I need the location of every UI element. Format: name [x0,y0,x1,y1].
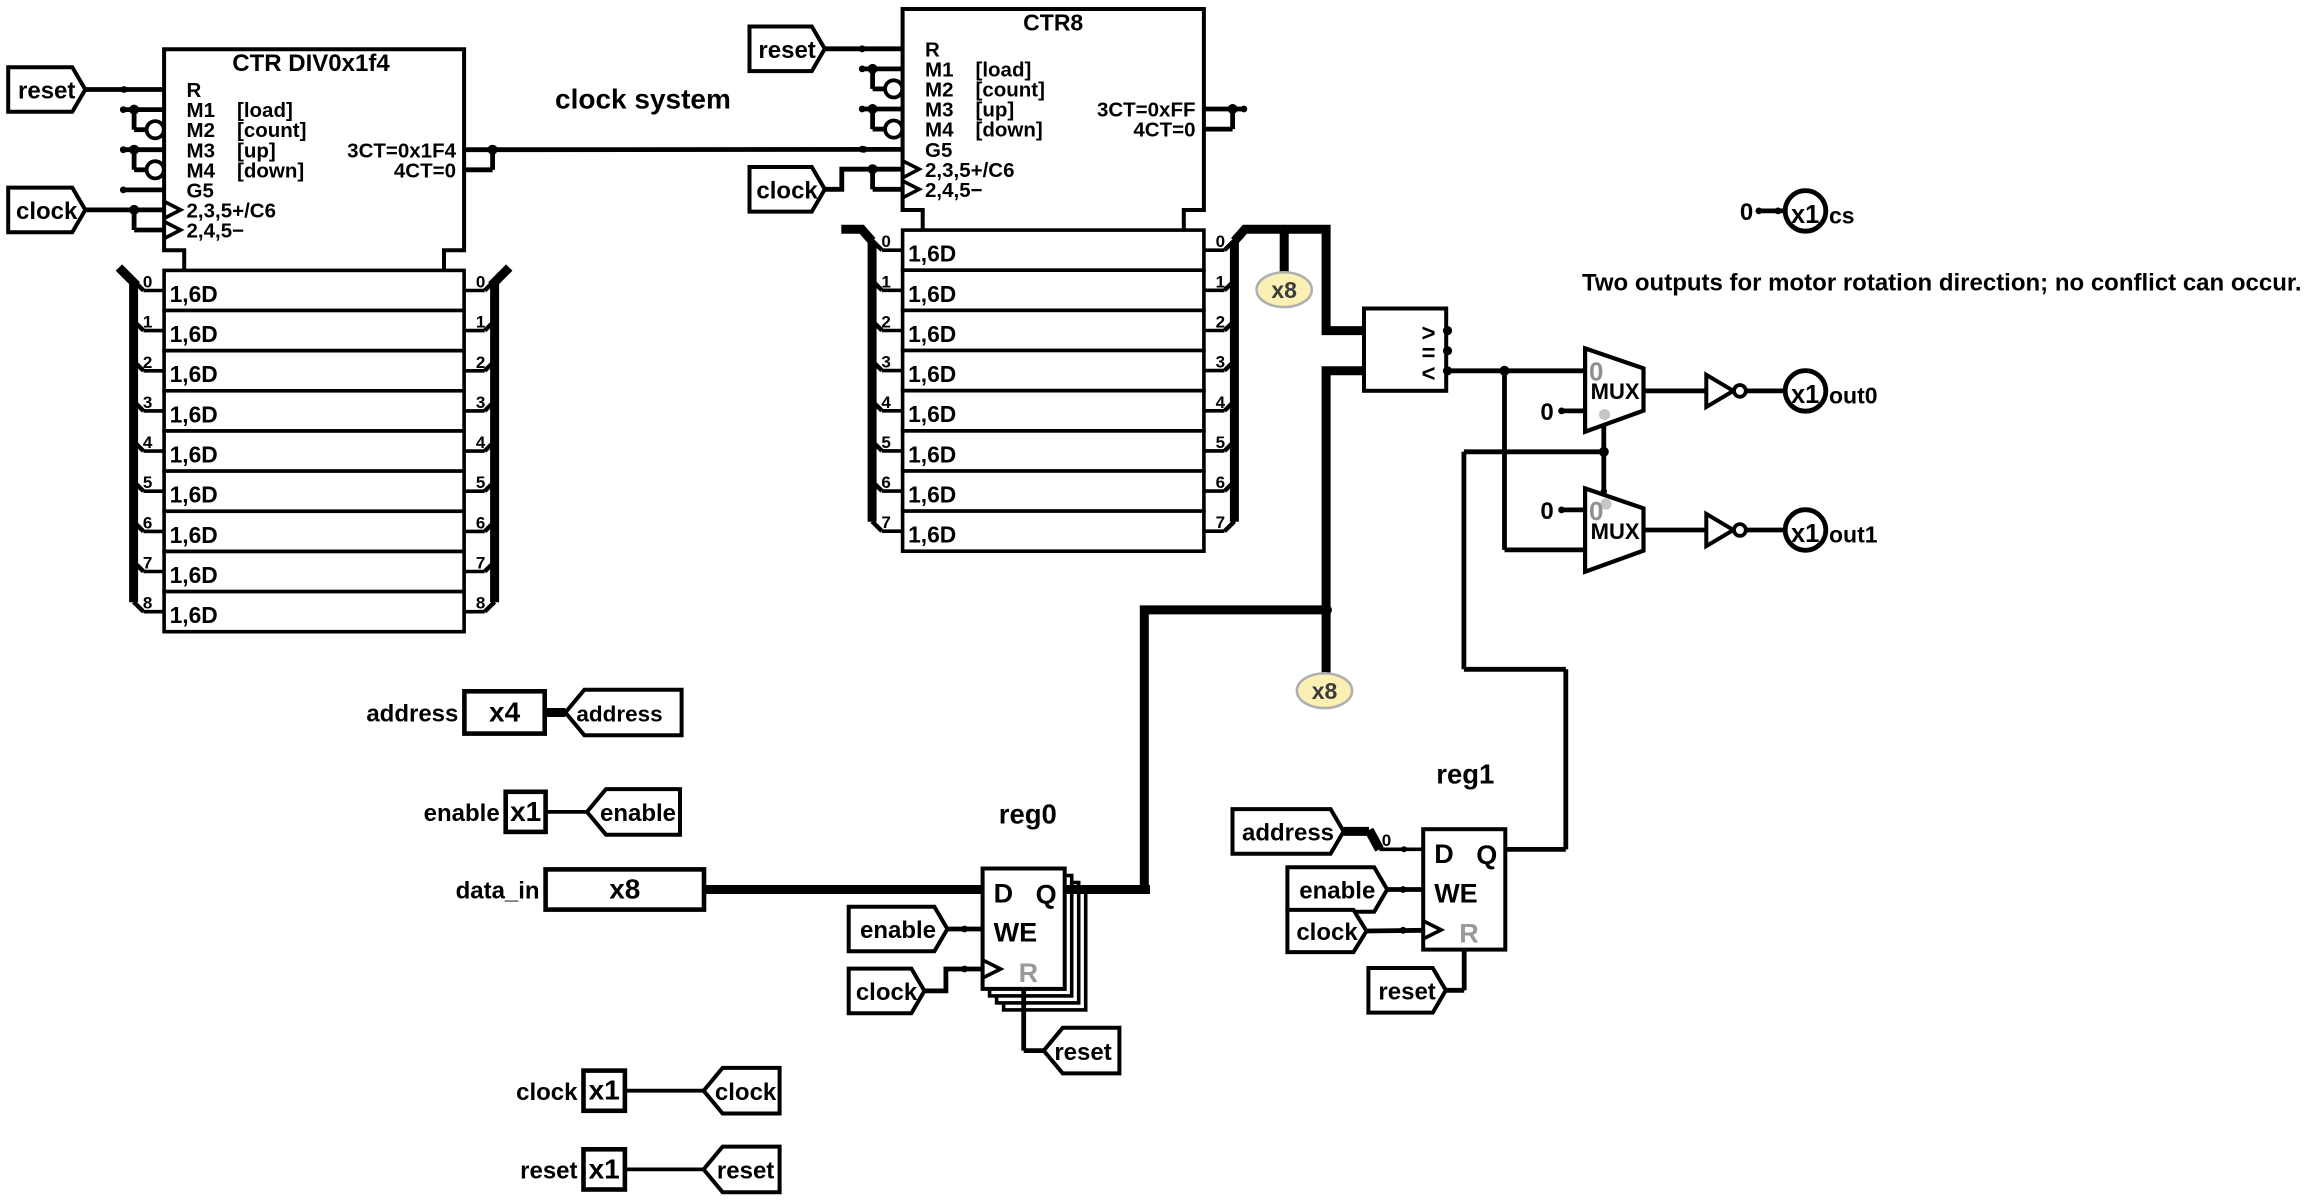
svg-text:8: 8 [143,594,152,613]
svg-text:4: 4 [476,433,486,452]
svg-text:R: R [1459,919,1479,949]
svg-text:2: 2 [143,353,152,372]
svg-text:0: 0 [1540,498,1553,525]
svg-text:1,6D: 1,6D [908,441,956,467]
svg-text:4: 4 [143,433,153,452]
svg-text:7: 7 [476,554,485,573]
svg-text:clock: clock [715,1079,777,1106]
svg-text:1,6D: 1,6D [170,281,218,307]
svg-text:clock: clock [756,178,818,205]
svg-text:3: 3 [881,353,890,372]
svg-text:1,6D: 1,6D [908,401,956,427]
svg-text:x1: x1 [1791,201,1819,229]
svg-text:0: 0 [1589,356,1603,386]
svg-text:address: address [1242,820,1334,847]
svg-text:1,6D: 1,6D [908,482,956,508]
svg-text:3: 3 [1216,353,1225,372]
svg-text:2: 2 [1216,313,1225,332]
svg-text:CTR8: CTR8 [1023,10,1083,36]
svg-text:1,6D: 1,6D [908,522,956,548]
svg-text:0: 0 [881,232,890,251]
svg-text:1: 1 [881,272,890,291]
svg-text:2: 2 [476,353,485,372]
svg-text:<: < [1421,360,1435,387]
svg-text:x1: x1 [1791,520,1819,548]
svg-text:x8: x8 [1312,678,1338,704]
svg-text:6: 6 [143,513,152,532]
svg-text:enable: enable [424,800,500,827]
svg-text:cs: cs [1829,203,1855,229]
svg-text:4CT=0: 4CT=0 [394,159,456,182]
svg-text:WE: WE [1434,878,1478,908]
svg-text:CTR DIV0x1f4: CTR DIV0x1f4 [232,50,390,77]
svg-text:2,4,5−: 2,4,5− [187,220,245,243]
svg-text:clock: clock [516,1079,578,1106]
svg-text:0: 0 [476,273,485,292]
svg-text:7: 7 [1216,513,1225,532]
svg-text:1,6D: 1,6D [170,361,218,387]
svg-text:D: D [1434,839,1454,869]
svg-text:Q: Q [1476,840,1497,870]
svg-text:enable: enable [860,917,936,944]
svg-text:1,6D: 1,6D [170,442,218,468]
svg-text:WE: WE [994,918,1038,948]
svg-text:reg0: reg0 [999,798,1057,829]
svg-text:reg1: reg1 [1436,759,1494,790]
svg-text:1,6D: 1,6D [908,361,956,387]
svg-text:reset: reset [1054,1039,1111,1066]
svg-text:1: 1 [476,313,485,332]
svg-text:clock system: clock system [555,84,731,115]
svg-text:0: 0 [1740,199,1753,226]
svg-text:1,6D: 1,6D [170,522,218,548]
svg-text:0: 0 [1382,831,1391,850]
svg-text:2: 2 [881,313,890,332]
svg-text:3: 3 [476,393,485,412]
svg-text:1: 1 [1216,272,1225,291]
svg-text:enable: enable [1299,878,1375,905]
svg-text:Q: Q [1036,879,1057,909]
svg-text:1,6D: 1,6D [170,602,218,628]
svg-text:x1: x1 [510,796,541,827]
svg-text:5: 5 [476,473,485,492]
svg-text:5: 5 [143,473,152,492]
svg-text:out0: out0 [1829,383,1878,409]
svg-text:out1: out1 [1829,522,1878,548]
svg-text:1,6D: 1,6D [170,321,218,347]
svg-text:address: address [576,702,662,727]
svg-text:7: 7 [881,513,890,532]
svg-text:5: 5 [1216,433,1225,452]
svg-text:1,6D: 1,6D [908,281,956,307]
svg-text:clock: clock [1296,919,1358,946]
svg-text:1,6D: 1,6D [170,401,218,427]
svg-text:x1: x1 [1791,381,1819,409]
svg-text:4: 4 [1216,393,1226,412]
svg-text:D: D [994,879,1014,909]
svg-text:[down]: [down] [976,119,1043,142]
svg-text:data_in: data_in [456,878,540,905]
svg-text:0: 0 [1589,496,1603,526]
svg-text:R: R [1019,958,1039,988]
svg-text:6: 6 [476,513,485,532]
svg-text:6: 6 [881,473,890,492]
svg-text:8: 8 [476,594,485,613]
svg-text:1,6D: 1,6D [908,321,956,347]
svg-text:clock: clock [856,979,918,1006]
svg-text:Two outputs for motor rotation: Two outputs for motor rotation direction… [1582,270,2302,297]
svg-text:4CT=0: 4CT=0 [1133,119,1195,142]
svg-text:address: address [366,701,458,728]
svg-text:2,4,5−: 2,4,5− [925,179,983,202]
svg-text:x4: x4 [489,696,521,727]
svg-text:4: 4 [881,393,891,412]
svg-text:1,6D: 1,6D [170,562,218,588]
svg-text:7: 7 [143,554,152,573]
svg-text:reset: reset [18,78,75,105]
svg-text:3: 3 [143,393,152,412]
svg-text:[down]: [down] [237,159,304,182]
svg-text:5: 5 [881,433,890,452]
svg-text:1,6D: 1,6D [170,482,218,508]
svg-text:clock: clock [16,198,78,225]
svg-text:reset: reset [717,1158,774,1185]
svg-text:x8: x8 [609,874,640,905]
svg-text:0: 0 [143,273,152,292]
svg-text:1,6D: 1,6D [908,241,956,267]
svg-text:x8: x8 [1271,277,1297,303]
svg-text:enable: enable [600,800,676,827]
svg-text:x1: x1 [589,1153,620,1184]
svg-text:0: 0 [1216,232,1225,251]
svg-text:reset: reset [520,1158,577,1185]
svg-text:6: 6 [1216,473,1225,492]
svg-text:reset: reset [1378,979,1435,1006]
svg-text:0: 0 [1540,399,1553,426]
svg-text:reset: reset [758,37,815,64]
svg-text:x1: x1 [589,1075,620,1106]
svg-text:1: 1 [143,313,152,332]
